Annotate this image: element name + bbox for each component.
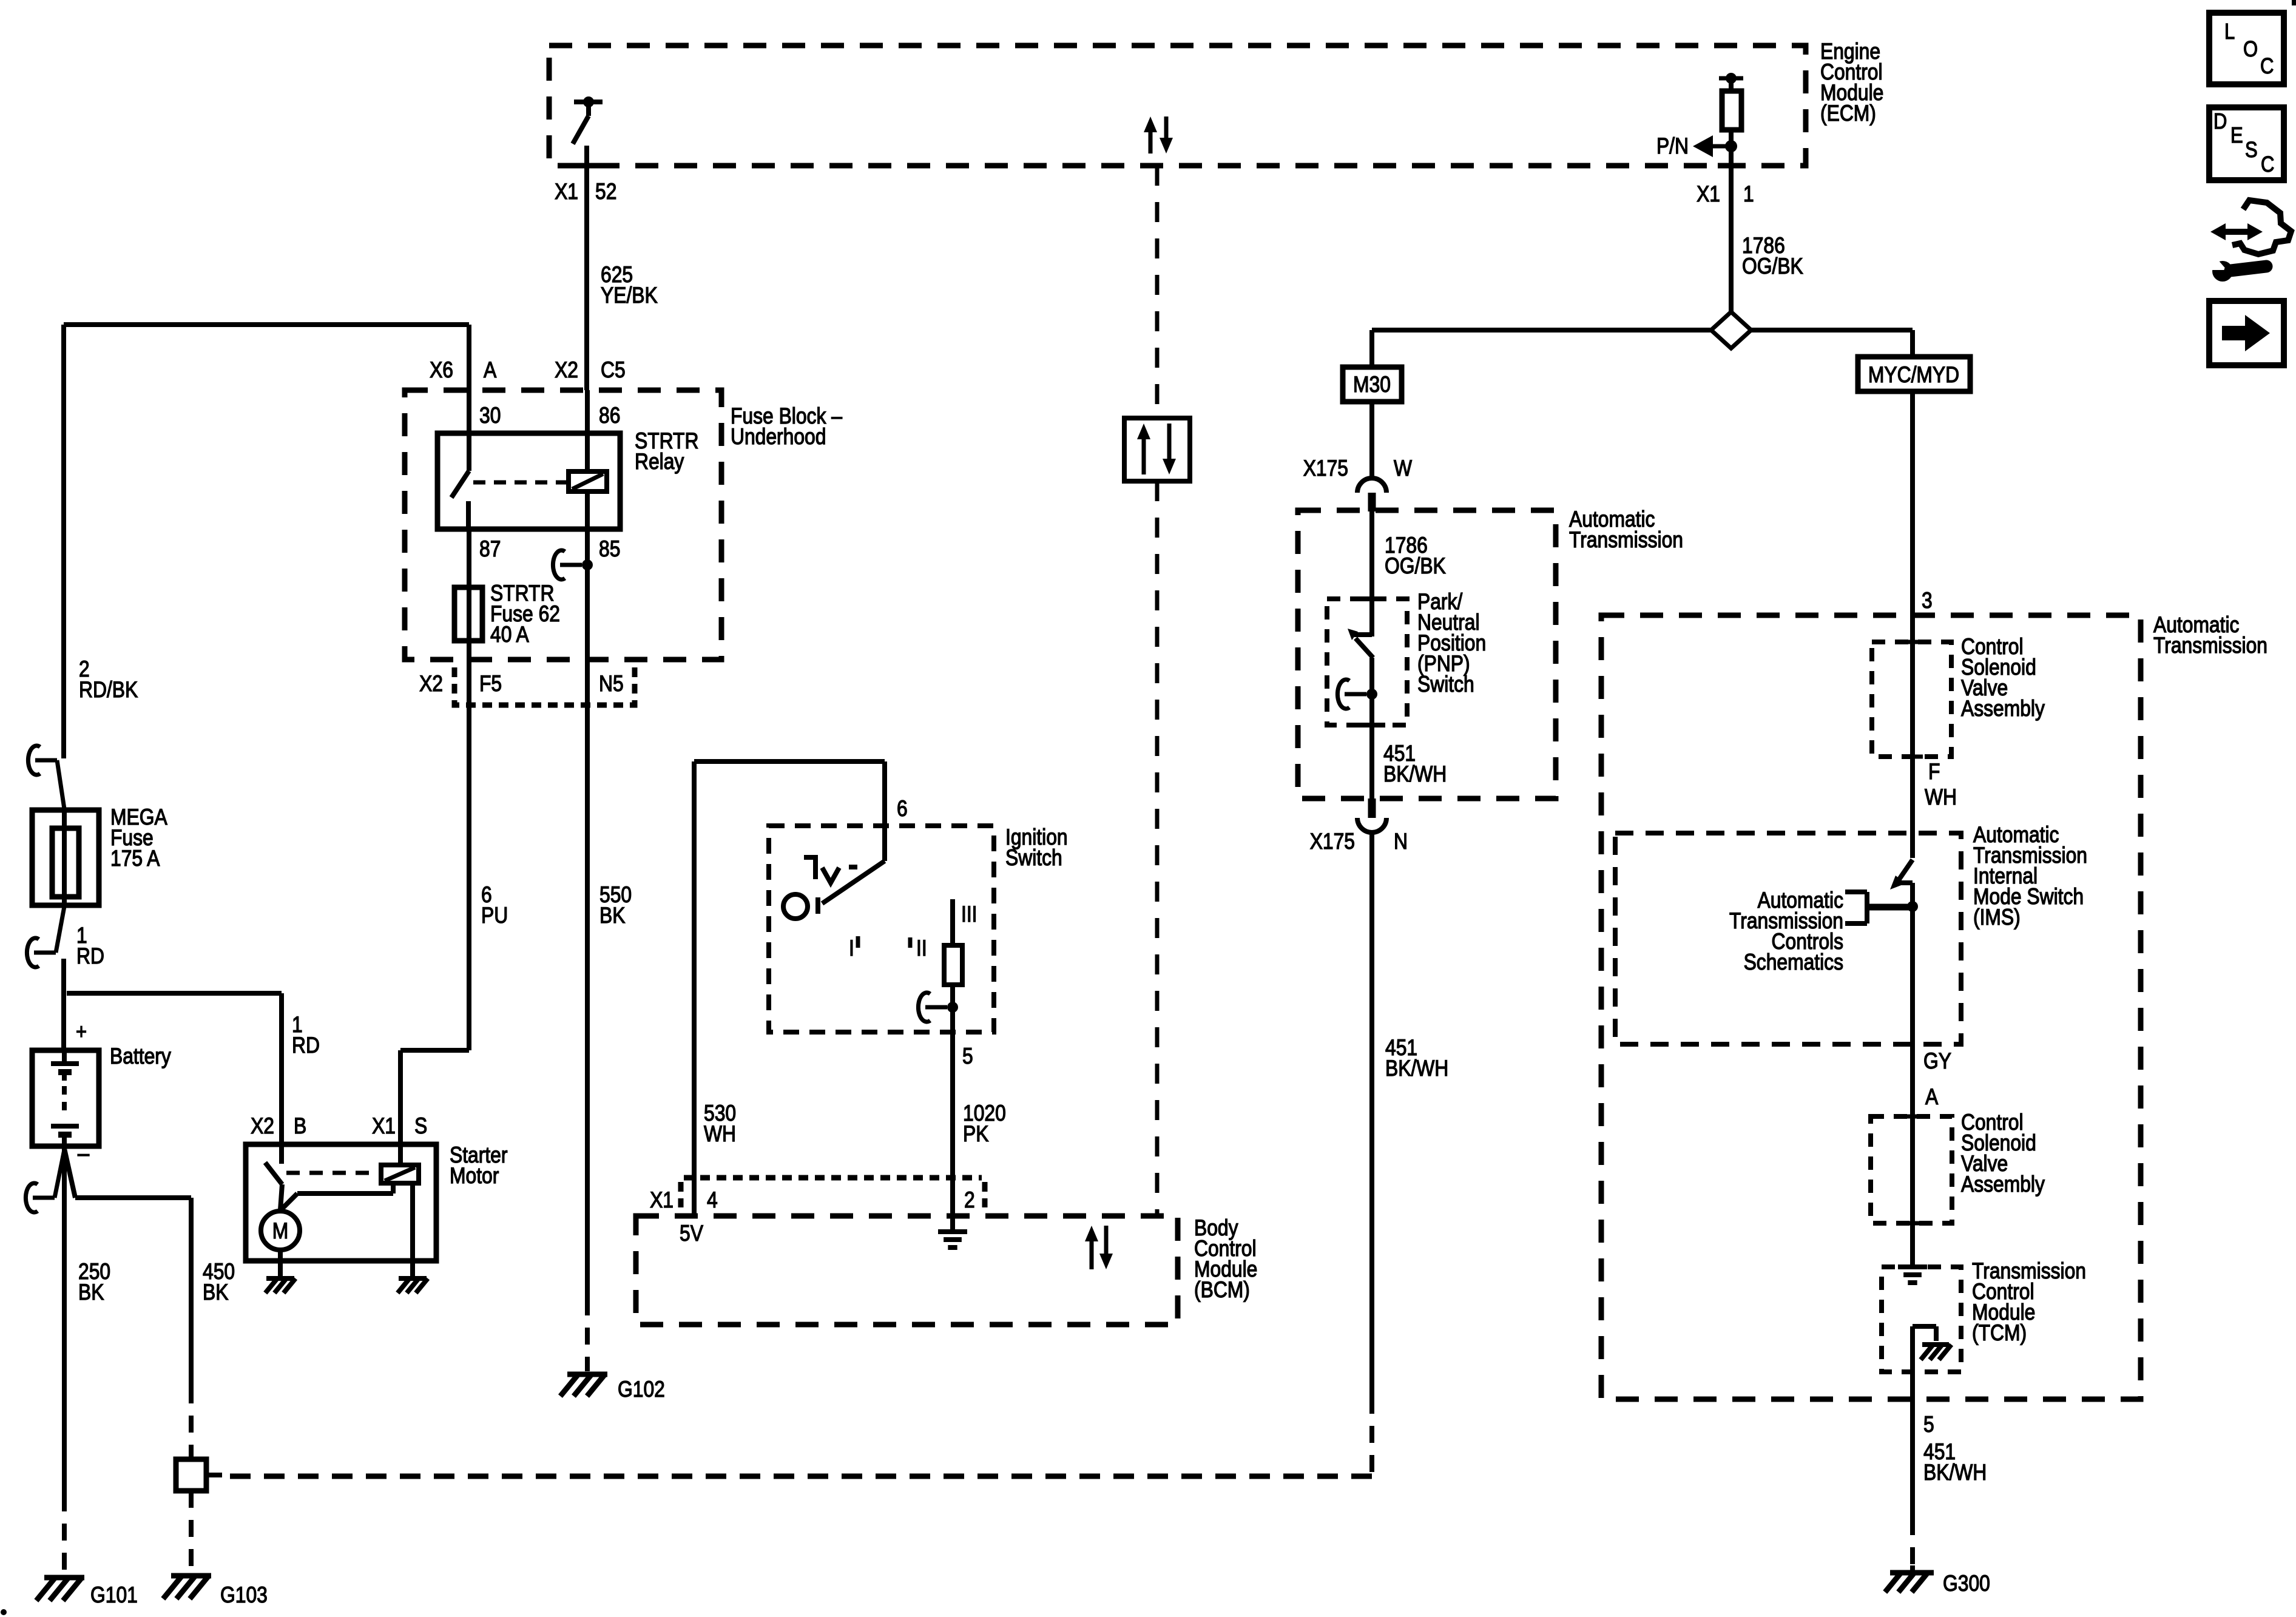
wire: M30 down to connector X175 W bbox=[1369, 402, 1374, 479]
relay switch lever bbox=[451, 471, 469, 498]
svg-text:Battery: Battery bbox=[110, 1044, 171, 1069]
page artifact dot bottom left bbox=[1, 1609, 7, 1615]
svg-text:BK/WH: BK/WH bbox=[1383, 762, 1447, 787]
ground: starter motor case (left) bbox=[266, 1276, 294, 1281]
svg-text:5V: 5V bbox=[680, 1221, 703, 1246]
svg-text:40 A: 40 A bbox=[490, 623, 529, 647]
ground G101 bbox=[44, 1575, 84, 1581]
svg-text:Schematics: Schematics bbox=[1744, 950, 1843, 975]
svg-text:M: M bbox=[272, 1219, 289, 1244]
svg-text:X2: X2 bbox=[251, 1114, 274, 1139]
relay actuator dashed link bbox=[473, 481, 566, 485]
svg-text:Relay: Relay bbox=[635, 450, 684, 474]
svg-text:RD/BK: RD/BK bbox=[79, 678, 138, 703]
module box: Transmission Control Module (TCM), fine dashed bbox=[1882, 1267, 1961, 1372]
svg-text:+: + bbox=[76, 1020, 87, 1044]
node: IMS junction dot bbox=[1907, 901, 1918, 912]
connector row X1 at BCM, fine dashed bbox=[684, 1175, 982, 1181]
component box: Control Solenoid Valve Assembly (upper), fine dashed bbox=[1872, 642, 1951, 757]
svg-text:52: 52 bbox=[595, 180, 616, 204]
inline connector clip below MEGA fuse bbox=[27, 938, 39, 967]
wire: ignition feed 530 WH loop bbox=[692, 761, 697, 1216]
serial data dashed line ECM to BCM bbox=[1155, 166, 1160, 418]
module box: Fuse Block - Underhood, dashed outline bbox=[405, 390, 721, 660]
svg-text:II: II bbox=[916, 936, 927, 961]
svg-text:30: 30 bbox=[479, 403, 501, 428]
wire: solenoid coil to case ground bbox=[410, 1183, 415, 1277]
svg-text:BK/WH: BK/WH bbox=[1923, 1460, 1987, 1485]
svg-text:6: 6 bbox=[897, 797, 908, 822]
svg-text:(IMS): (IMS) bbox=[1973, 905, 2021, 930]
svg-text:C: C bbox=[2261, 153, 2274, 177]
svg-text:(TCM): (TCM) bbox=[1972, 1321, 2027, 1346]
wire: 450 BK dashed into ground splice bbox=[189, 1386, 194, 1459]
switch: PNP contact lever with arrowhead bbox=[1354, 632, 1372, 637]
svg-text:W: W bbox=[1394, 456, 1412, 481]
svg-text:BK: BK bbox=[203, 1280, 228, 1305]
starter solenoid switch lever bbox=[265, 1163, 282, 1184]
wire: 530 WH into BCM bbox=[692, 1178, 697, 1216]
battery bbox=[32, 1050, 99, 1146]
svg-text:PU: PU bbox=[481, 903, 508, 928]
svg-text:MYC/MYD: MYC/MYD bbox=[1868, 363, 1959, 388]
svg-text:X175: X175 bbox=[1310, 829, 1355, 854]
svg-text:GY: GY bbox=[1923, 1049, 1951, 1074]
wire: motor to case ground bbox=[278, 1250, 283, 1277]
svg-text:F5: F5 bbox=[479, 672, 502, 697]
wire: MYC/MYD down into Automatic Transmission bbox=[1910, 391, 1915, 858]
ignition position marks I II III bbox=[856, 936, 860, 948]
fuse: MEGA Fuse 175 A bbox=[32, 810, 99, 905]
svg-text:YE/BK: YE/BK bbox=[601, 283, 658, 308]
svg-text:O: O bbox=[2243, 38, 2258, 62]
signal ground inside BCM bbox=[938, 1229, 967, 1234]
wire: relay pin 86 from C5 bbox=[585, 390, 590, 471]
starter solenoid coil bbox=[381, 1165, 419, 1183]
svg-text:X1: X1 bbox=[1697, 182, 1720, 207]
svg-text:RD: RD bbox=[76, 944, 104, 969]
svg-text:C5: C5 bbox=[601, 358, 626, 383]
ECM P/N input: pull-up bar and dot bbox=[1719, 76, 1743, 81]
ground G103 bbox=[171, 1573, 211, 1579]
inline connector clip below battery negative bbox=[25, 1183, 38, 1212]
svg-text:OG/BK: OG/BK bbox=[1742, 254, 1803, 279]
component box: Park/Neutral Position switch, fine dashed bbox=[1327, 599, 1407, 725]
relay coil bbox=[569, 471, 607, 491]
svg-text:X175: X175 bbox=[1303, 456, 1348, 481]
starter actuator dashed link bbox=[286, 1171, 379, 1175]
wire: 250 BK battery negative to G101 bbox=[62, 1149, 67, 1494]
serial data box with up/down arrows bbox=[1124, 418, 1190, 481]
svg-text:Underhood: Underhood bbox=[731, 425, 826, 450]
node: ground splice box at G103 bbox=[176, 1459, 206, 1491]
wire: 451 BK/WH out of PNP switch bbox=[1369, 694, 1374, 798]
svg-text:Transmission: Transmission bbox=[1569, 528, 1683, 553]
reference bracket: Automatic Transmission Controls Schematics bbox=[1845, 890, 1867, 894]
svg-text:S: S bbox=[2245, 138, 2258, 163]
wire: battery positive feed top run 2 RD/BK bbox=[64, 322, 469, 327]
svg-text:5: 5 bbox=[1923, 1413, 1934, 1437]
node: diamond splice of circuit 1786 bbox=[1711, 312, 1751, 348]
ECM internal switch (ignition voltage driver) bbox=[574, 100, 603, 104]
svg-text:L: L bbox=[2224, 20, 2235, 44]
svg-text:M30: M30 bbox=[1353, 373, 1391, 397]
wire: IMS output down, GY / A bbox=[1910, 906, 1915, 1266]
node: pin 85 junction with inline clip bbox=[553, 550, 565, 579]
wire: dashed shared ground to G102 bbox=[585, 1298, 590, 1371]
fuse: STRTR Fuse 62 40 A bbox=[467, 529, 471, 705]
serial data arrows inside ECM bbox=[1144, 116, 1157, 132]
module box: Engine Control Module (ECM), dashed outline bbox=[549, 46, 1806, 166]
svg-text:B: B bbox=[294, 1114, 306, 1139]
svg-text:5: 5 bbox=[962, 1044, 973, 1069]
svg-text:D: D bbox=[2213, 110, 2227, 134]
svg-text:F: F bbox=[1928, 760, 1940, 785]
svg-text:OG/BK: OG/BK bbox=[1385, 554, 1446, 579]
svg-text:N5: N5 bbox=[599, 672, 624, 697]
svg-text:Switch: Switch bbox=[1417, 672, 1474, 697]
component box: Control Solenoid Valve Assembly (lower), fine dashed bbox=[1871, 1116, 1952, 1223]
svg-text:WH: WH bbox=[1925, 785, 1957, 810]
icon: arrow box bbox=[2209, 301, 2284, 365]
page artifact tick top right bbox=[2292, 0, 2296, 5]
wire: 1020 PK into BCM to signal ground bbox=[950, 1178, 955, 1232]
svg-text:BK/WH: BK/WH bbox=[1385, 1056, 1448, 1081]
starter internal contact wiring bbox=[280, 1193, 297, 1210]
svg-text:X6: X6 bbox=[430, 358, 453, 383]
svg-text:(BCM): (BCM) bbox=[1194, 1278, 1250, 1303]
ignition key symbol bbox=[804, 857, 815, 879]
motor M circle bbox=[261, 1211, 300, 1250]
wire: 6 PU from F5 to starter S terminal bbox=[467, 705, 471, 1050]
svg-text:G101: G101 bbox=[90, 1583, 138, 1608]
svg-text:X1: X1 bbox=[650, 1188, 674, 1213]
svg-text:BK: BK bbox=[78, 1280, 104, 1305]
wire: dashed horizontal ground link to G103 splice bbox=[222, 1474, 1372, 1479]
connector row X2 | F5 N5, fine dashed bbox=[454, 667, 635, 705]
svg-text:N: N bbox=[1394, 829, 1408, 854]
resistor: ECM P/N pull-up bbox=[1722, 91, 1741, 130]
node: P/N junction dot with arrow to P/N bbox=[1725, 140, 1737, 152]
module box: A/T Internal Mode Switch (IMS), dashed outline bbox=[1615, 833, 1961, 1044]
TCM internal chassis ground hook bbox=[1910, 1326, 1915, 1372]
ignition switch contact bar and circle bbox=[815, 897, 820, 914]
svg-text:X2: X2 bbox=[555, 358, 578, 383]
svg-text:G300: G300 bbox=[1943, 1571, 1990, 1596]
inline connector clip above MEGA fuse bbox=[28, 746, 40, 775]
svg-text:A: A bbox=[1925, 1085, 1938, 1110]
svg-text:I: I bbox=[849, 936, 854, 961]
wire: battery positive to starter B, 1 RD bbox=[61, 959, 66, 1050]
connector X175 pin N (inline connector symbol) bbox=[1368, 798, 1376, 818]
svg-text:X1: X1 bbox=[555, 180, 578, 204]
svg-text:C: C bbox=[2260, 55, 2274, 79]
svg-text:X1: X1 bbox=[372, 1114, 396, 1139]
svg-text:–: – bbox=[78, 1139, 89, 1167]
icon: DESC box bbox=[2209, 107, 2284, 180]
wire: 1786 OG/BK inside transmission bbox=[1369, 510, 1374, 636]
svg-text:(ECM): (ECM) bbox=[1820, 101, 1876, 126]
icon: diagnostic hand with double arrow and wrench bbox=[2210, 223, 2263, 240]
pin label X1 | 1 bbox=[1718, 163, 1744, 169]
svg-text:WH: WH bbox=[704, 1122, 736, 1147]
svg-text:4: 4 bbox=[707, 1188, 718, 1213]
component box: Starter Motor bbox=[246, 1144, 436, 1261]
svg-text:1: 1 bbox=[1743, 182, 1754, 207]
wire: battery negative branch to 450 BK bbox=[64, 1149, 75, 1198]
svg-text:Motor: Motor bbox=[450, 1164, 499, 1189]
svg-text:G103: G103 bbox=[220, 1583, 268, 1608]
wire: 451 BK/WH down to ground splice bbox=[1369, 832, 1374, 1397]
resistor: ignition switch internal bbox=[950, 899, 955, 945]
svg-text:BK: BK bbox=[599, 903, 625, 928]
svg-text:Switch: Switch bbox=[1005, 846, 1062, 871]
svg-text:P/N: P/N bbox=[1656, 134, 1689, 159]
serial data dashed line continues to BCM bbox=[1155, 481, 1160, 1216]
svg-text:PK: PK bbox=[963, 1122, 988, 1147]
wire: 550 BK from N5 toward G102 bbox=[585, 705, 590, 1298]
svg-text:175 A: 175 A bbox=[110, 846, 160, 871]
svg-text:Assembly: Assembly bbox=[1961, 697, 2045, 721]
svg-text:X2: X2 bbox=[419, 672, 443, 697]
serial data arrows inside BCM bbox=[1085, 1226, 1098, 1241]
wire: relay pin 85 to N5 bbox=[585, 491, 590, 705]
wire: ECM P/N sense down to pin X1-1 bbox=[1729, 78, 1734, 91]
svg-text:RD: RD bbox=[292, 1033, 320, 1058]
wire: dashed shared ground to G300 bbox=[1910, 1518, 1915, 1567]
relay box: STRTR Relay bbox=[437, 433, 620, 529]
svg-text:87: 87 bbox=[479, 537, 501, 562]
switch: IMS lever with arrowhead bbox=[1898, 860, 1913, 881]
module box: Body Control Module (BCM), dashed outline bbox=[636, 1216, 1178, 1325]
node: PNP output junction with inline clip bbox=[1337, 680, 1349, 709]
svg-text:III: III bbox=[961, 902, 977, 927]
svg-text:Assembly: Assembly bbox=[1961, 1172, 2045, 1197]
svg-text:3: 3 bbox=[1922, 589, 1933, 613]
module box: Automatic Transmission (left), dashed outline bbox=[1298, 510, 1556, 798]
wire: TCM pin 5, 451 BK/WH to G300 bbox=[1910, 1372, 1915, 1518]
wire: dashed shared ground run to splice bbox=[1369, 1397, 1374, 1476]
svg-text:2: 2 bbox=[964, 1188, 975, 1213]
signal ground inside TCM bbox=[1898, 1264, 1927, 1269]
ground G300 bbox=[1890, 1570, 1934, 1576]
off-page reference MYC/MYD bbox=[1858, 357, 1970, 391]
svg-text:85: 85 bbox=[599, 537, 620, 562]
connector X175 pin W (inline connector symbol) bbox=[1357, 478, 1386, 493]
svg-text:Transmission: Transmission bbox=[2153, 633, 2267, 658]
icon: LOC box bbox=[2209, 13, 2284, 84]
svg-text:S: S bbox=[414, 1114, 427, 1139]
component box: Ignition Switch, dashed bbox=[769, 826, 994, 1032]
ignition switch lever bbox=[822, 861, 885, 903]
svg-text:G102: G102 bbox=[618, 1377, 665, 1402]
wire: ECM pin X1-52 output, vertical bbox=[584, 146, 589, 390]
ground: starter solenoid case (right) bbox=[399, 1276, 427, 1281]
module box: Automatic Transmission (right), dashed outline bbox=[1601, 615, 2141, 1399]
wire: horizontal bus from M30 to MYC/MYD bbox=[1372, 328, 1711, 333]
wire: battery feed to relay pin 30 bbox=[467, 325, 471, 471]
wire: 1020 PK to BCM bbox=[950, 1032, 955, 1178]
svg-text:A: A bbox=[484, 358, 496, 383]
node: resistor output junction with inline clip bbox=[918, 993, 930, 1022]
svg-text:86: 86 bbox=[599, 403, 620, 428]
wire: dashed shared ground to G101 bbox=[62, 1494, 67, 1576]
off-page reference M30 bbox=[1343, 367, 1402, 402]
wire: dashed from splice to G103 bbox=[189, 1491, 194, 1573]
ground G102 bbox=[567, 1372, 607, 1377]
svg-text:E: E bbox=[2230, 124, 2243, 148]
